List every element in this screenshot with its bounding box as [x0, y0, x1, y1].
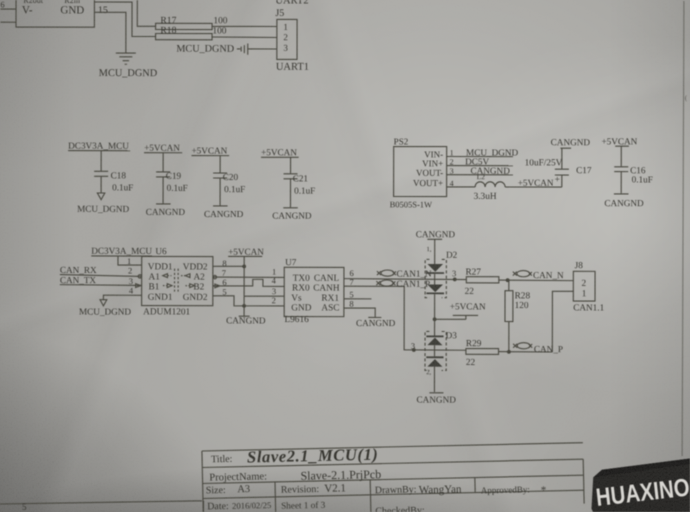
ground MCU_DGND (under pin 15) — [99, 53, 158, 79]
svg-text:CANGND: CANGND — [551, 137, 591, 147]
junction (D2/D3/+5VCAN) — [433, 317, 437, 321]
sheet frame bottom border — [0, 501, 204, 512]
svg-text:CAN_P: CAN_P — [534, 344, 563, 354]
svg-text:2: 2 — [283, 32, 288, 42]
capacitor C21 0.1uF — [283, 157, 315, 207]
wire vertical to CANGND — [243, 296, 245, 316]
svg-text:C21: C21 — [293, 173, 309, 183]
svg-text:8: 8 — [349, 299, 353, 309]
diode D2 (dual, anode-up pair) — [425, 250, 458, 298]
svg-text:C18: C18 — [111, 170, 127, 180]
svg-text:U6: U6 — [155, 246, 167, 256]
resistor R17 — [156, 15, 213, 29]
wire U6 pin6 to U7 pin4 (jog) — [213, 279, 284, 286]
svg-text:VDD2: VDD2 — [183, 262, 208, 272]
ferrite bead (CAN1_N) — [377, 270, 396, 276]
svg-text:0.1uF: 0.1uF — [224, 184, 245, 194]
capacitor C18 0.1uF — [94, 151, 133, 193]
svg-text:3.3uH: 3.3uH — [474, 192, 497, 202]
svg-text:0.1uF: 0.1uF — [112, 182, 133, 192]
svg-text:CAN_N: CAN_N — [533, 270, 564, 280]
svg-text:U7: U7 — [285, 257, 297, 267]
power CANGND (at U7 pin8) — [356, 317, 396, 328]
svg-text:0.1uF: 0.1uF — [167, 183, 188, 193]
power CANGND (below C16) — [604, 194, 644, 208]
svg-text:*: * — [541, 484, 547, 496]
wire pin4 to inductor — [447, 186, 475, 188]
svg-text:CANGND: CANGND — [226, 315, 266, 325]
wire pin2 stub — [447, 165, 513, 167]
svg-text:CAN_TX: CAN_TX — [60, 275, 97, 285]
CAN transceiver U7 L9616 — [284, 257, 344, 325]
svg-text:2016/02/25: 2016/02/25 — [232, 500, 271, 511]
junction (CAN_P / R28) — [507, 350, 511, 354]
wire U7 pin7 (CANH) to corner — [344, 286, 466, 350]
power DC3V3A_MCU (above C18) — [68, 141, 130, 151]
ferrite bead (CAN_P) — [513, 343, 532, 349]
resistor R18 — [156, 25, 213, 40]
power DC3V3A_MCU (at U6 pin1) — [91, 246, 152, 256]
svg-text:CANH: CANH — [313, 284, 340, 294]
svg-text:GND1: GND1 — [148, 293, 173, 303]
power +5VCAN (U6/U7) — [228, 247, 264, 296]
svg-text:CheckedBy:: CheckedBy: — [375, 505, 425, 512]
power CANGND (below C19) — [146, 204, 186, 217]
svg-text:R2in: R2in — [64, 0, 80, 5]
svg-text:5: 5 — [22, 502, 27, 512]
power CANGND (below U6/U7) — [226, 315, 266, 325]
power +5VCAN (above C21) — [261, 147, 299, 157]
svg-text:+5VCAN: +5VCAN — [261, 147, 297, 157]
capacitor C17 10uF/25V — [525, 148, 592, 187]
svg-text:TX0: TX0 — [293, 274, 310, 284]
DC-DC converter PS2 B0505S-1W — [390, 137, 447, 210]
svg-text:+: + — [555, 175, 560, 185]
svg-text:0.1uF: 0.1uF — [294, 186, 315, 196]
svg-text:D3: D3 — [446, 330, 458, 340]
svg-text:CANGND: CANGND — [356, 318, 396, 328]
svg-text:1: 1 — [582, 289, 587, 299]
svg-text:CANGND: CANGND — [204, 209, 244, 219]
junction (CAN1_P / D3 node) — [412, 348, 416, 352]
svg-text:VOUT-: VOUT- — [416, 168, 443, 178]
power +5VCAN (above C20) — [191, 146, 229, 156]
wire U6 pin4 to ground — [103, 295, 141, 299]
power CANGND (above C17) — [551, 137, 591, 148]
svg-text:C17: C17 — [576, 165, 592, 175]
svg-text:RX1: RX1 — [321, 294, 339, 304]
junction (D2 node / R27) — [453, 278, 457, 282]
svg-text:ASC: ASC — [321, 303, 339, 313]
svg-text:CANGND: CANGND — [146, 207, 186, 217]
wire CAN_RX to U6 pin2 — [60, 275, 142, 277]
svg-text:+5VCAN: +5VCAN — [228, 247, 264, 257]
capacitor C19 0.1uF — [156, 153, 188, 204]
svg-text:B0505S-1W: B0505S-1W — [390, 199, 433, 209]
svg-text:Size:: Size: — [206, 485, 226, 496]
logo HUAXINO — [592, 459, 690, 512]
svg-text:Slave-2.1.PrjPcb: Slave-2.1.PrjPcb — [300, 467, 381, 483]
junction (CAN_N / R28) — [506, 278, 510, 282]
power CANGND (above D2) — [416, 229, 456, 239]
capacitor C20 0.1uF — [213, 156, 245, 206]
svg-text:ApprovedBy:: ApprovedBy: — [481, 484, 530, 495]
junction (pin8/+5VCAN) — [242, 264, 246, 268]
svg-text:2: 2 — [128, 265, 132, 275]
svg-text:10uF/25V: 10uF/25V — [525, 158, 563, 168]
svg-text:VOUT+: VOUT+ — [413, 178, 443, 188]
wire U7 pin6 (CANL) to D2 node and R27 — [344, 278, 466, 281]
junction (pin5/CANGND) — [242, 304, 246, 308]
wire CAN_TX to U6 pin3 — [60, 284, 142, 287]
svg-text:C20: C20 — [223, 172, 239, 182]
wire U7 pin8 to CANGND — [344, 308, 375, 317]
wire riser to J8 pin1 — [552, 291, 573, 352]
ground MCU_DGND arrow (below C18) — [77, 193, 129, 214]
svg-text:C19: C19 — [166, 171, 182, 181]
svg-text:CANGND: CANGND — [604, 198, 644, 208]
svg-text:UART2: UART2 — [275, 0, 308, 7]
wire R27 to J8 pin2 — [499, 279, 574, 282]
isolator U6 ADUM1201 — [142, 246, 213, 317]
svg-text:1: 1 — [283, 22, 288, 32]
svg-text:MCU_DGND: MCU_DGND — [77, 204, 129, 214]
svg-text:15: 15 — [98, 5, 108, 16]
svg-text:Revision:: Revision: — [281, 484, 320, 496]
wire D2 bottom to +5VCAN and D3 — [434, 294, 436, 335]
svg-text:DC3V3A_MCU: DC3V3A_MCU — [68, 141, 129, 151]
power CANGND (below C20) — [204, 206, 244, 219]
svg-text:VDD1: VDD1 — [148, 262, 173, 272]
svg-text:R28: R28 — [515, 291, 531, 301]
svg-text:ADUM1201: ADUM1201 — [143, 307, 190, 317]
connector J8 CAN1 — [573, 260, 604, 312]
svg-text:3: 3 — [283, 43, 288, 53]
wire (left edge stub) — [0, 21, 16, 23]
ferrite bead (CAN1_P) — [376, 280, 395, 286]
svg-text:CAN1.1: CAN1.1 — [573, 302, 604, 312]
svg-text:+5VCAN: +5VCAN — [518, 178, 554, 188]
svg-text:+5VCAN: +5VCAN — [601, 136, 637, 146]
wire (top feed to R17) — [137, 0, 155, 26]
svg-text:GND: GND — [60, 4, 84, 16]
wire U6 pin7 to U7 pin1 — [213, 276, 284, 278]
wire R29 to J8 pin1 riser — [499, 351, 553, 353]
wire (pin16 to R18) — [94, 2, 155, 37]
wire pin15 to ground — [94, 12, 126, 52]
svg-text:RX0: RX0 — [292, 284, 310, 294]
resistor R28 120 (vertical) — [505, 280, 531, 352]
inductor L2 3.3uH — [474, 172, 506, 202]
svg-text:UART1: UART1 — [276, 62, 309, 73]
wire +5VCAN down to U7 pin3 — [244, 295, 284, 297]
svg-text:CANL: CANL — [314, 274, 340, 284]
svg-text:Sheet 1 of 3: Sheet 1 of 3 — [281, 500, 326, 511]
svg-text:CANGND: CANGND — [416, 229, 456, 239]
svg-text:J5: J5 — [275, 8, 284, 19]
svg-text:2: 2 — [581, 279, 586, 289]
wire pin1 stub — [447, 156, 513, 158]
ground MCU_DGND (sideways, at J5 pin3) — [176, 43, 247, 54]
svg-text:PS2: PS2 — [394, 137, 409, 147]
wire U6 pin5 to CANGND/U7 pin2 — [213, 296, 284, 306]
svg-text:6: 6 — [0, 0, 4, 9]
title block grid — [202, 443, 584, 512]
wire pin3 stub — [447, 174, 513, 176]
pin 6 — [0, 0, 16, 9]
svg-text:B1: B1 — [149, 282, 160, 292]
svg-text:Date:: Date: — [207, 501, 229, 512]
svg-text:2,: 2, — [426, 369, 431, 376]
svg-text:D2: D2 — [446, 250, 458, 260]
power +5VCAN (above C19) — [144, 143, 182, 153]
wire DC3V3A to U6 pin1 — [118, 256, 142, 265]
svg-text:4: 4 — [272, 275, 277, 285]
svg-text:GND2: GND2 — [183, 293, 208, 303]
svg-text:CAN_RX: CAN_RX — [60, 265, 97, 275]
svg-text:A3: A3 — [237, 484, 250, 495]
svg-text:Vs: Vs — [291, 294, 302, 304]
wire U7 pin5 stub — [344, 298, 371, 300]
svg-text:3: 3 — [452, 268, 456, 278]
svg-text:CANGND: CANGND — [417, 395, 457, 405]
svg-text:Title:: Title: — [211, 454, 233, 465]
svg-text:+5VCAN: +5VCAN — [191, 146, 227, 156]
svg-text:J8: J8 — [575, 260, 584, 270]
connector J5 UART1 — [275, 0, 309, 73]
power CANGND (below C21) — [272, 208, 312, 221]
svg-text:CANGND: CANGND — [272, 211, 312, 221]
svg-text:100: 100 — [213, 16, 227, 26]
svg-text:Slave2.1_MCU(1): Slave2.1_MCU(1) — [247, 445, 379, 467]
wire inductor to C17 — [505, 186, 562, 188]
resistor R27 22 — [465, 268, 499, 297]
svg-text:120: 120 — [515, 301, 529, 311]
svg-text:V-: V- — [22, 4, 33, 16]
resistor R29 22 — [466, 339, 499, 368]
svg-text:GND: GND — [291, 303, 311, 313]
svg-text:R2out: R2out — [23, 0, 43, 5]
wire D3 bottom to CANGND — [433, 367, 435, 392]
wire junction to +5VCAN — [435, 318, 466, 320]
svg-text:7: 7 — [349, 277, 353, 287]
svg-text:+5VCAN: +5VCAN — [144, 143, 180, 153]
svg-text:A1: A1 — [149, 272, 161, 282]
svg-text:MCU_DGND: MCU_DGND — [176, 44, 234, 55]
wire R18 to J5 pin2 — [212, 36, 277, 39]
svg-text:MCU_DGND: MCU_DGND — [99, 68, 158, 79]
svg-text:L9616: L9616 — [284, 315, 309, 325]
svg-text:ProjectName:: ProjectName: — [209, 471, 267, 483]
svg-text:R18: R18 — [160, 25, 176, 36]
svg-text:MCU_DGND: MCU_DGND — [79, 307, 131, 317]
wire R17 to J5 pin1 — [212, 25, 277, 27]
svg-text:2: 2 — [272, 295, 276, 305]
svg-text:DC3V3A_MCU: DC3V3A_MCU — [91, 246, 152, 256]
power +5VCAN (above C16) — [601, 136, 637, 146]
svg-text:+5VCAN: +5VCAN — [450, 301, 486, 311]
diode D3 (dual, cathode-up pair) — [425, 330, 457, 370]
wire ground to J5 pin3 — [248, 48, 277, 50]
svg-text:1,: 1, — [426, 246, 431, 253]
svg-text:DrawnBy:: DrawnBy: — [375, 484, 417, 496]
svg-text:(: ( — [685, 94, 688, 102]
svg-text:22: 22 — [466, 358, 476, 368]
sheet frame right border — [682, 1, 684, 456]
svg-text:0.1uF: 0.1uF — [632, 174, 653, 184]
svg-text:L2: L2 — [477, 172, 486, 181]
capacitor C16 0.1uF — [614, 146, 653, 193]
wire U6 pin8 to +5VCAN — [213, 265, 244, 267]
ferrite bead (CAN_N) — [513, 271, 532, 277]
svg-text:R29: R29 — [466, 339, 482, 349]
op-amp U? (partial IC, top-left, cut off) — [16, 0, 94, 27]
svg-text:WangYan: WangYan — [419, 483, 462, 496]
power +5VCAN (at D2/D3 node) — [450, 301, 486, 319]
power CANGND (below D3) — [417, 393, 457, 405]
svg-text:A2: A2 — [193, 273, 205, 283]
svg-text:B2: B2 — [193, 282, 204, 292]
svg-text:22: 22 — [465, 287, 475, 297]
wire CANGND to D2 — [434, 239, 436, 264]
svg-text:4: 4 — [129, 285, 134, 295]
ground MCU_DGND arrow (at U6 pin4) — [79, 300, 131, 317]
svg-text:100: 100 — [212, 26, 226, 36]
svg-text:V2.1: V2.1 — [324, 482, 346, 494]
